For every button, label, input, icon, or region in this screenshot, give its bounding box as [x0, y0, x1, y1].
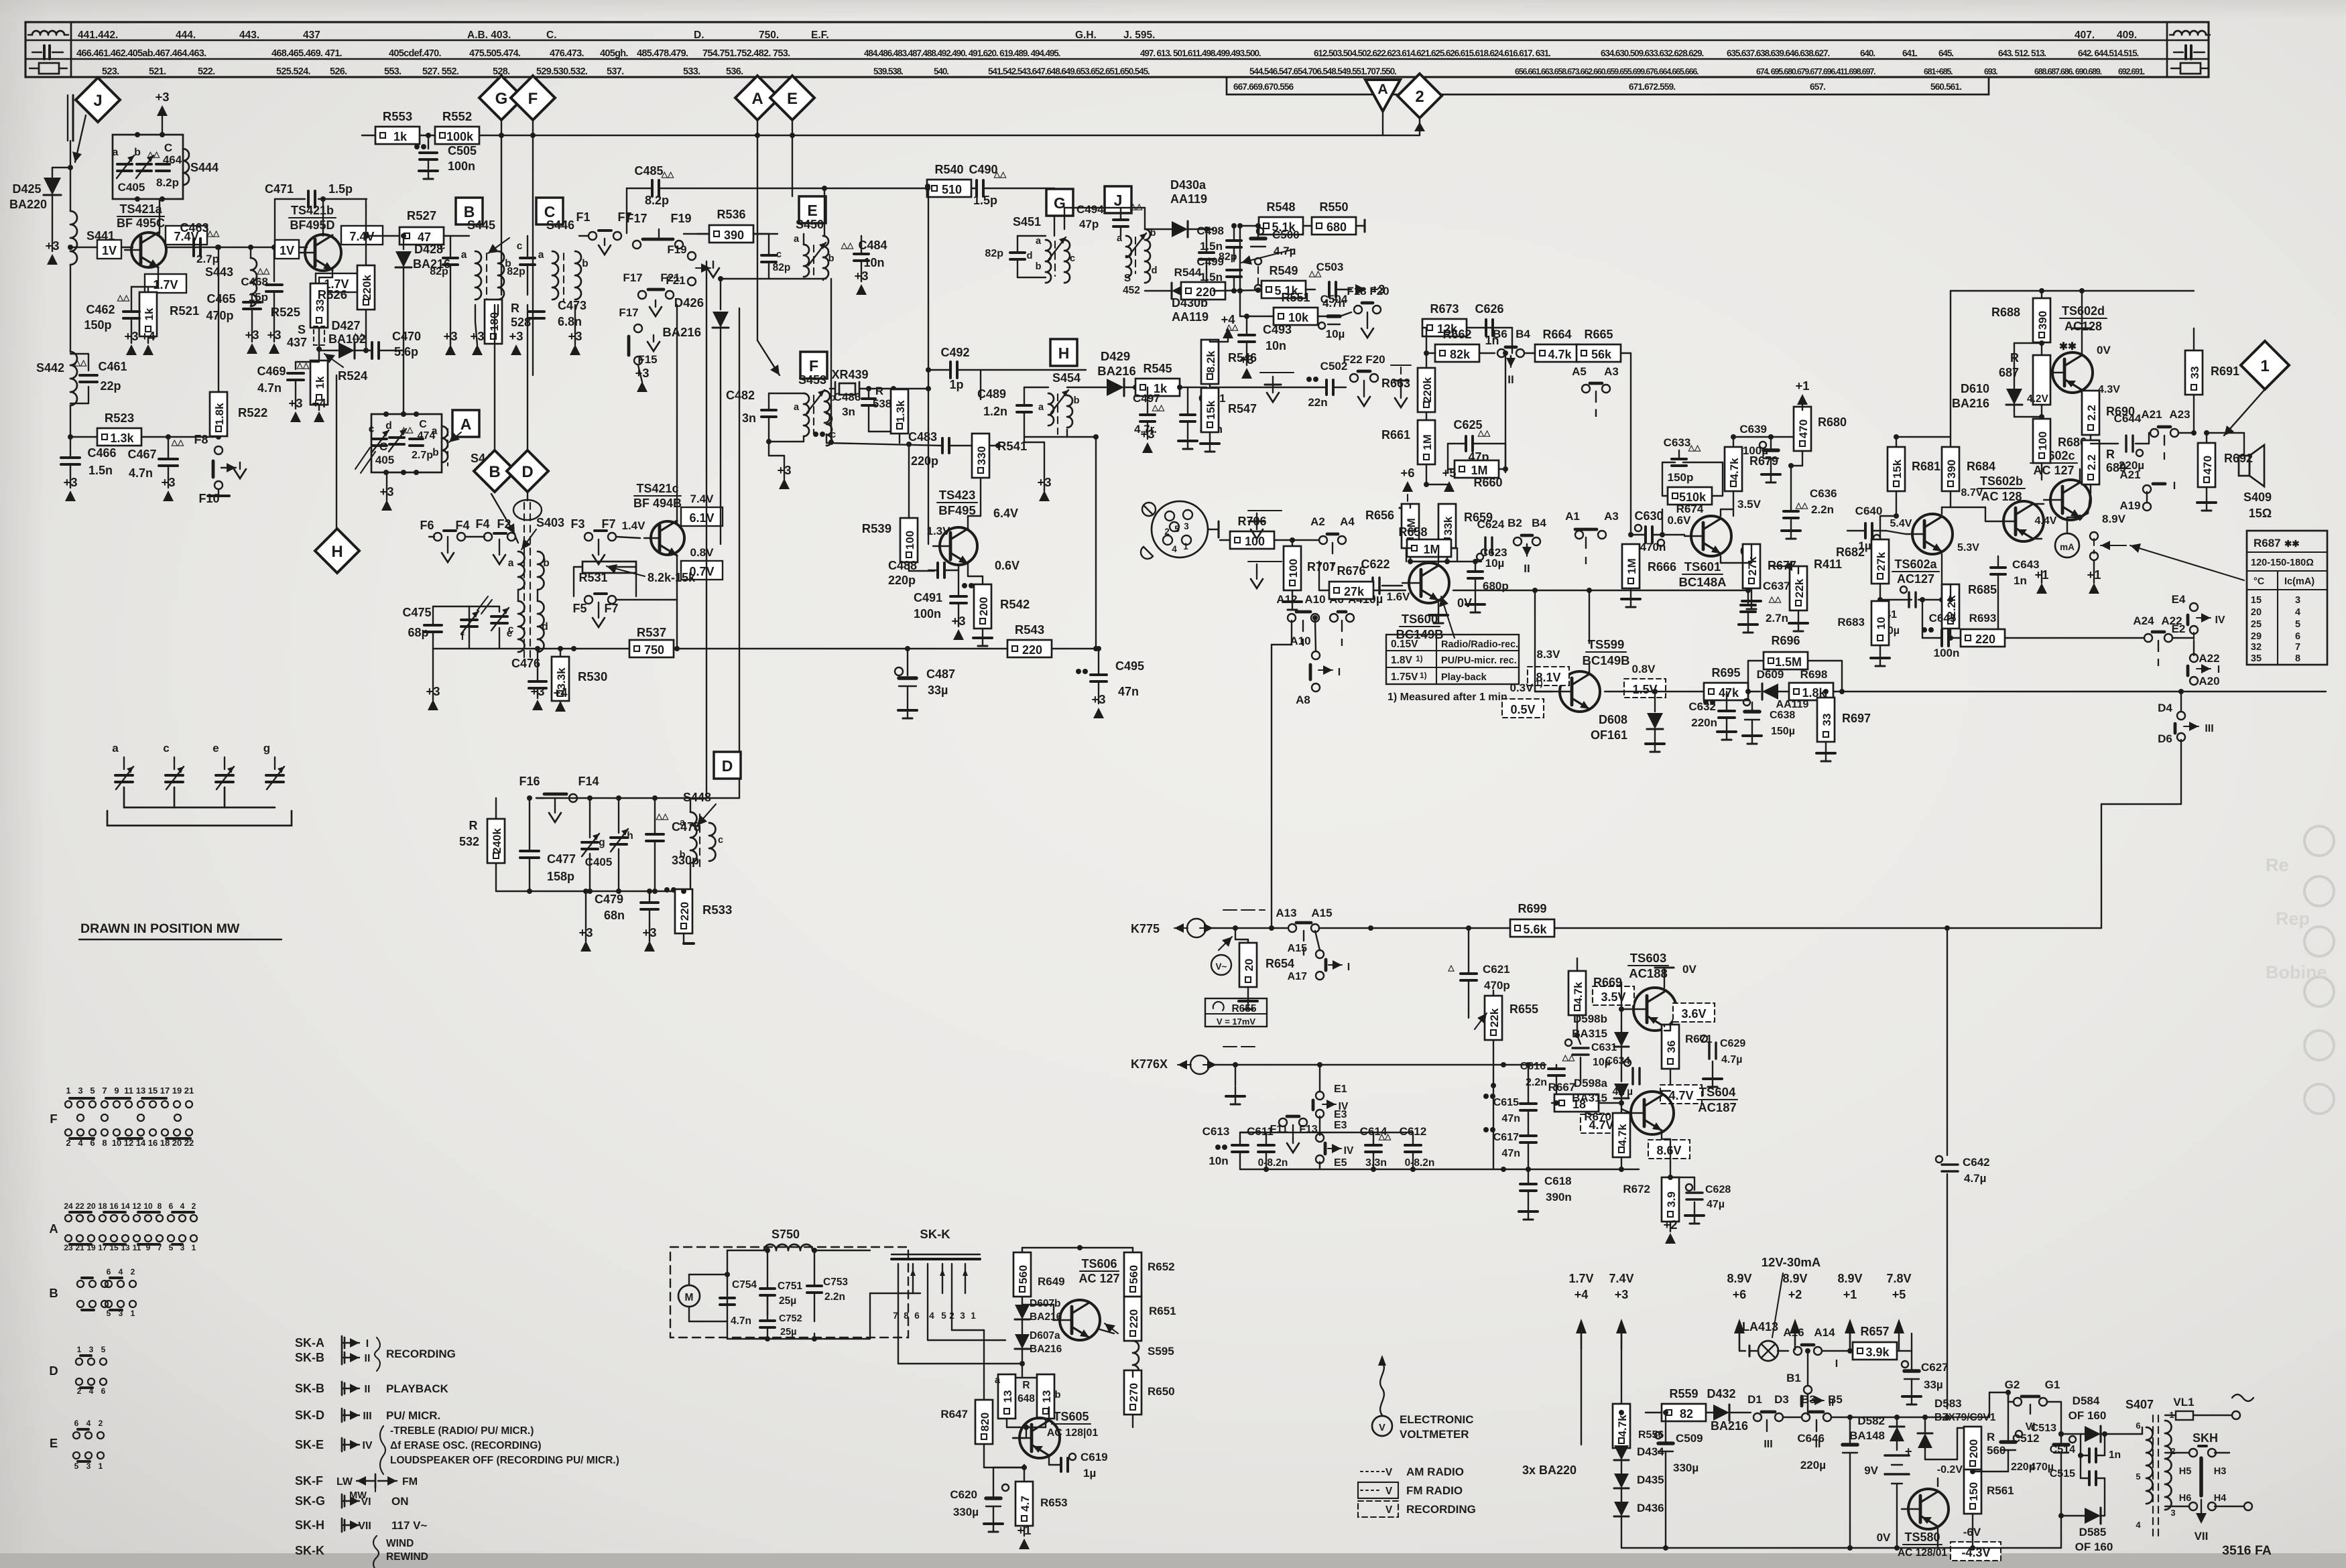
wire tuning to TS421a	[159, 199, 160, 234]
svg-text:220p: 220p	[911, 454, 938, 468]
svg-text:D432: D432	[1707, 1387, 1735, 1400]
svg-text:674. 695.680.679.677.696.411.6: 674. 695.680.679.677.696.411.698.697.	[1756, 67, 1875, 76]
wire S454 column	[1015, 442, 1017, 443]
svg-text:V: V	[1385, 1467, 1393, 1478]
capacitor C462 150p	[84, 287, 148, 343]
svg-text:SK-K: SK-K	[920, 1227, 950, 1241]
contacts F3 F7	[570, 517, 616, 564]
svg-text:+6: +6	[1400, 466, 1414, 480]
svg-text:4.4V: 4.4V	[2035, 515, 2057, 527]
capacitor C753 2.2n	[767, 1248, 848, 1321]
svg-text:BZX79/C9V1: BZX79/C9V1	[1934, 1412, 1996, 1423]
svg-text:J: J	[1114, 192, 1123, 209]
resistor R667 18	[1548, 1081, 1624, 1112]
svg-text:1k: 1k	[393, 130, 408, 143]
svg-text:8.9V: 8.9V	[2102, 513, 2126, 525]
svg-text:1M: 1M	[1625, 558, 1638, 574]
svg-text:a: a	[508, 558, 514, 569]
contacts A21 A23	[2141, 408, 2197, 462]
supply +3 osc right	[642, 925, 656, 952]
diode D609 AA119	[1757, 668, 1809, 710]
svg-text:C473: C473	[558, 299, 586, 312]
svg-text:a: a	[680, 818, 686, 828]
wire tone bottom bus	[1240, 1167, 1639, 1172]
wire +1 rail TS601	[1733, 434, 1805, 440]
svg-text:R547: R547	[1228, 402, 1257, 415]
voltage 7.4V 6.1V TS421c	[681, 493, 723, 526]
svg-text:4.7n: 4.7n	[731, 1315, 751, 1327]
svg-text:F8: F8	[194, 433, 208, 446]
faint ghost bleedthrough	[2266, 826, 2334, 1114]
svg-text:F5: F5	[572, 602, 586, 615]
wire rail right	[1947, 1390, 2011, 1417]
svg-text:1.5p: 1.5p	[973, 194, 997, 207]
osc wiring	[496, 798, 739, 894]
supply +1 below R653	[1017, 1523, 1031, 1549]
svg-text:2: 2	[99, 1419, 103, 1428]
diode D582 BA148 battery	[1849, 1415, 1912, 1548]
svg-text:BA148: BA148	[1849, 1429, 1885, 1442]
resistor R536 390 lead	[697, 233, 709, 235]
svg-text:SK-H: SK-H	[295, 1518, 324, 1532]
svg-text:+3: +3	[509, 329, 523, 343]
svg-text:C620: C620	[950, 1488, 977, 1501]
svg-text:0.6V: 0.6V	[1668, 514, 1692, 527]
svg-text:8.9V: 8.9V	[1782, 1272, 1807, 1285]
wire TS601 base	[1676, 534, 1684, 535]
wire TS599 collector	[1589, 643, 1590, 674]
svg-text:4: 4	[86, 1419, 91, 1428]
svg-text:3: 3	[960, 1311, 965, 1321]
IF can S454 and D429	[977, 371, 1081, 437]
wire A stem	[757, 120, 780, 375]
svg-text:+6: +6	[1733, 1288, 1747, 1301]
capacitor C471 1.5p	[265, 182, 367, 247]
meter box R655	[1205, 998, 1267, 1027]
capacitor C461 22p	[70, 354, 127, 403]
svg-text:14: 14	[121, 1201, 130, 1211]
svg-text:667.669.670.556: 667.669.670.556	[1233, 82, 1294, 92]
svg-text:8.3V: 8.3V	[1537, 648, 1561, 661]
svg-text:I: I	[2217, 664, 2220, 675]
wire vertical x1103 upper	[739, 308, 740, 320]
diamond H lower	[315, 375, 359, 573]
svg-text:R651: R651	[1149, 1305, 1176, 1317]
svg-text:Re: Re	[2266, 855, 2289, 875]
svg-text:A22: A22	[2199, 652, 2219, 665]
svg-text:SK-E: SK-E	[295, 1438, 324, 1451]
potentiometer R655 22k	[1469, 990, 1538, 1088]
diode D434	[1614, 1445, 1664, 1460]
svg-text:+2: +2	[1663, 1218, 1677, 1232]
box letter J IF	[1105, 186, 1131, 213]
label TS602a AC127	[1892, 558, 1939, 586]
transformer S407	[2125, 1398, 2176, 1538]
label TS580	[1898, 1530, 1947, 1559]
transistor TS606 AC127	[1053, 1300, 1100, 1340]
wire TS604 collector emitter	[1662, 1091, 1670, 1177]
svg-text:526.: 526.	[330, 66, 347, 77]
supply rail arrow +5	[1886, 1272, 1911, 1350]
label TS601 BC148A	[1679, 560, 1727, 589]
legend FM radio	[1358, 1482, 1463, 1498]
svg-text:C.: C.	[546, 29, 557, 41]
motor M	[678, 1275, 727, 1321]
svg-text:R533: R533	[702, 903, 732, 917]
wire TS599 emitter to R695	[1589, 692, 1704, 709]
svg-text:443.: 443.	[239, 29, 259, 41]
capacitor C493 10n	[1225, 316, 1292, 365]
supply +1 under R686	[2034, 568, 2048, 594]
motor box S750 dashed	[670, 1247, 908, 1337]
svg-text:0.8V: 0.8V	[690, 546, 715, 559]
svg-text:B: B	[49, 1286, 58, 1300]
svg-text:R654: R654	[1265, 957, 1294, 970]
svg-text:+2: +2	[1788, 1288, 1802, 1301]
svg-text:+4: +4	[553, 685, 568, 700]
resistor R538 1.3k vertical	[873, 385, 908, 443]
wire mid bus	[1503, 350, 1508, 472]
svg-text:560: 560	[1127, 1265, 1140, 1284]
svg-text:+1: +1	[1017, 1523, 1031, 1537]
supply +3 below C467	[161, 475, 175, 501]
wire TS606 top rail	[1022, 1245, 1133, 1250]
svg-text:LW: LW	[336, 1476, 353, 1488]
svg-text:C469: C469	[257, 365, 286, 378]
svg-text:240k: 240k	[491, 828, 503, 854]
svg-text:468.465.469. 471.: 468.465.469. 471.	[271, 48, 343, 59]
transistor TS600 BC149B	[1402, 563, 1449, 603]
svg-text:47µ: 47µ	[1707, 1199, 1725, 1210]
supply rail arrow +3	[1609, 1272, 1633, 1350]
svg-text:V: V	[1385, 1504, 1393, 1516]
wire R681 rail	[1802, 436, 1951, 438]
capacitor C491 100n	[914, 570, 974, 627]
voltage 5.3V TS602a	[1957, 542, 1979, 553]
svg-text:C468: C468	[241, 275, 268, 288]
svg-text:+4: +4	[312, 396, 326, 410]
svg-text:✱✱: ✱✱	[2284, 539, 2300, 549]
svg-text:VII: VII	[2195, 1530, 2209, 1543]
svg-text:F16: F16	[519, 775, 540, 788]
svg-text:C636: C636	[1810, 487, 1837, 500]
svg-text:750.: 750.	[759, 29, 779, 41]
resistor R650 270 vertical	[1124, 1370, 1175, 1427]
svg-text:220µ: 220µ	[1800, 1459, 1826, 1472]
capacitor C514 1n	[2050, 1431, 2121, 1462]
svg-text:437: 437	[303, 29, 320, 41]
transistor TS604 AC187	[1624, 1092, 1674, 1134]
svg-text:437: 437	[287, 336, 307, 349]
label TS421b BF495D	[289, 204, 336, 232]
svg-text:390: 390	[724, 228, 744, 242]
diamond A top	[735, 76, 780, 120]
voltage 1.3V TS423	[927, 525, 951, 537]
svg-text:R530: R530	[578, 669, 607, 683]
svg-text:687: 687	[1999, 366, 2019, 379]
svg-text:R: R	[1022, 1380, 1030, 1391]
svg-text:645.: 645.	[1938, 48, 1953, 58]
svg-text:SK-B: SK-B	[295, 1382, 324, 1395]
box letter B IF	[456, 198, 483, 224]
svg-text:510: 510	[942, 183, 962, 196]
svg-text:1: 1	[66, 1086, 70, 1096]
svg-text:R676: R676	[1337, 564, 1365, 578]
diamond D lower	[507, 450, 548, 492]
resistor R660 1M box	[1426, 353, 1505, 489]
svg-text:J. 595.: J. 595.	[1123, 29, 1155, 41]
svg-text:470: 470	[1797, 419, 1810, 438]
svg-text:4: 4	[180, 1201, 185, 1211]
svg-text:IV: IV	[362, 1440, 372, 1451]
wire TS602b to c	[2033, 504, 2044, 539]
svg-text:444.: 444.	[176, 29, 196, 41]
capacitor C615 47n	[1483, 1062, 1536, 1135]
label TS600 BC149B	[1396, 612, 1444, 641]
svg-text:100n: 100n	[448, 159, 475, 173]
svg-text:F: F	[528, 90, 538, 108]
svg-text:C752: C752	[779, 1313, 802, 1324]
svg-text:TS602d: TS602d	[2062, 304, 2105, 318]
svg-text:C475: C475	[402, 606, 431, 619]
svg-text:A16: A16	[1783, 1326, 1804, 1339]
svg-text:b: b	[582, 258, 588, 269]
svg-text:C487: C487	[926, 667, 955, 681]
svg-text:A12: A12	[1276, 593, 1297, 606]
wire R411 to emitter	[1770, 566, 1798, 567]
wire S450b down	[830, 279, 832, 442]
contacts F5 F7 low	[572, 594, 618, 627]
svg-text:g: g	[263, 742, 270, 755]
svg-text:100: 100	[1287, 559, 1300, 578]
resistor R539 100 vertical	[862, 518, 934, 571]
capacitor C624 10u	[1477, 518, 1505, 570]
resistor R548 5.1k	[1237, 200, 1312, 235]
table row 3 resistor numbers	[102, 66, 2145, 77]
svg-text:F22: F22	[1343, 353, 1362, 366]
svg-text:Ic(mA): Ic(mA)	[2284, 576, 2314, 587]
svg-text:R541: R541	[997, 439, 1027, 453]
resistor R693 220	[1961, 612, 2051, 647]
contacts F22 F20	[1343, 353, 1385, 406]
capacitor C468 15p	[241, 247, 282, 342]
svg-text:82p: 82p	[430, 266, 448, 277]
svg-text:E1: E1	[1334, 1084, 1347, 1095]
wire tone top bus	[1240, 1065, 1413, 1132]
svg-text:R687: R687	[2254, 537, 2281, 549]
svg-text:AC128: AC128	[2064, 320, 2102, 333]
svg-text:648: 648	[1017, 1393, 1035, 1404]
svg-text:C486: C486	[834, 391, 861, 403]
svg-text:BA216: BA216	[662, 325, 701, 339]
wire C642 column	[1936, 925, 1990, 1409]
svg-text:C: C	[379, 440, 387, 453]
svg-text:E: E	[50, 1436, 58, 1450]
transistor TS421a BF495C	[125, 233, 166, 267]
resistor R679 4.7k vertical	[1725, 434, 1778, 509]
svg-text:A10: A10	[1290, 635, 1310, 647]
supply rail arrow +2	[1782, 1272, 1807, 1350]
svg-text:220k: 220k	[361, 275, 373, 300]
switch diagram E	[50, 1419, 104, 1471]
wire +1 rail top	[1951, 288, 2194, 293]
svg-text:1k: 1k	[143, 308, 156, 320]
svg-text:F20: F20	[1369, 285, 1389, 298]
svg-text:h: h	[627, 830, 633, 842]
svg-text:A.B. 403.: A.B. 403.	[467, 29, 511, 41]
resistor R533 220 vertical	[675, 889, 732, 943]
wire TS602c collector	[2080, 469, 2091, 482]
meter V~ R654	[1211, 925, 1294, 1009]
svg-text:+3: +3	[1615, 1288, 1629, 1301]
svg-text:220: 220	[1127, 1309, 1140, 1328]
trimmer row a c e g	[107, 742, 292, 826]
svg-text:D598a: D598a	[1574, 1077, 1608, 1090]
svg-text:VII: VII	[358, 1520, 371, 1532]
svg-text:c: c	[830, 430, 836, 440]
motor box bottom wire	[689, 1293, 920, 1342]
svg-text:4: 4	[929, 1311, 934, 1321]
svg-text:B5: B5	[1828, 1393, 1843, 1406]
svg-text:ELECTRONIC: ELECTRONIC	[1400, 1413, 1474, 1426]
svg-text:22k: 22k	[1793, 578, 1806, 598]
svg-text:B2: B2	[1507, 517, 1522, 529]
svg-text:1.3k: 1.3k	[894, 400, 907, 423]
resistor R653 4.7 vertical	[1015, 1482, 1068, 1536]
diamond 2 top	[1398, 74, 1442, 135]
svg-text:AA119: AA119	[1170, 192, 1207, 206]
svg-text:R552: R552	[442, 109, 472, 123]
svg-text:25µ: 25µ	[780, 1327, 796, 1337]
component index table frame	[25, 22, 2209, 94]
svg-text:4.7n: 4.7n	[257, 381, 282, 395]
contacts F6 F4	[420, 519, 469, 562]
svg-text:OF161: OF161	[1591, 728, 1627, 742]
wire TS600 base R658	[1402, 562, 1447, 586]
resistor R542 200 vertical	[968, 565, 1030, 646]
svg-text:11: 11	[124, 1086, 133, 1096]
svg-text:BA216: BA216	[1952, 397, 1989, 410]
svg-text:1: 1	[192, 1243, 196, 1252]
svg-text:G2: G2	[2005, 1378, 2020, 1391]
svg-text:330µ: 330µ	[953, 1506, 979, 1518]
svg-text:R670: R670	[1584, 1110, 1611, 1123]
svg-text:C646: C646	[1797, 1432, 1825, 1445]
svg-text:0-8.2n: 0-8.2n	[1258, 1157, 1288, 1169]
svg-text:D435: D435	[1637, 1474, 1664, 1486]
svg-text:R655: R655	[1509, 1002, 1538, 1016]
svg-text:R681: R681	[1912, 460, 1940, 473]
svg-text:C632: C632	[1688, 700, 1716, 713]
svg-text:K775: K775	[1131, 922, 1160, 935]
svg-text:6: 6	[101, 1386, 106, 1396]
svg-text:H: H	[331, 543, 343, 561]
svg-text:C613: C613	[1202, 1125, 1230, 1138]
svg-text:2.7n: 2.7n	[1766, 612, 1788, 625]
svg-text:C638: C638	[1770, 710, 1795, 721]
resistor R671 36 vertical	[1662, 1025, 1713, 1091]
svg-text:C492: C492	[940, 346, 969, 359]
svg-text:V: V	[1385, 1486, 1393, 1497]
svg-text:S442: S442	[36, 361, 64, 375]
svg-text:33µ: 33µ	[928, 683, 948, 697]
svg-text:220: 220	[1975, 633, 1995, 646]
table row 3 second line numbers	[1233, 82, 1961, 92]
speaker S409	[2207, 433, 2272, 520]
svg-text:VI: VI	[361, 1496, 371, 1508]
svg-text:8.2p: 8.2p	[156, 176, 179, 189]
svg-text:475.505.474.: 475.505.474.	[469, 48, 521, 59]
svg-text:200: 200	[1967, 1439, 1980, 1458]
svg-text:R549: R549	[1269, 264, 1298, 277]
svg-text:C619: C619	[1081, 1451, 1108, 1463]
contact A21 single	[2119, 468, 2176, 512]
svg-text:8.9V: 8.9V	[1727, 1272, 1751, 1285]
wire S454 bottom	[1048, 430, 1099, 651]
switch contact F8 F10	[194, 433, 246, 505]
svg-text:F1: F1	[576, 210, 590, 224]
svg-text:PU/ MICR.: PU/ MICR.	[386, 1409, 440, 1422]
svg-text:BA216: BA216	[1030, 1344, 1062, 1355]
transistor TS602a AC127	[1906, 514, 1953, 554]
wire TS599 base	[1535, 643, 1553, 692]
svg-text:D429: D429	[1101, 349, 1130, 363]
svg-text:8.6V: 8.6V	[1656, 1144, 1681, 1157]
svg-text:8: 8	[158, 1201, 162, 1211]
contacts B1 B3 vertical	[1786, 1348, 1834, 1415]
meter mA	[2055, 515, 2126, 560]
capacitor C487 33u	[831, 646, 955, 718]
svg-text:b: b	[1055, 1390, 1061, 1400]
voltage 0V TS580	[1877, 1531, 1891, 1544]
svg-text:D3: D3	[1774, 1393, 1789, 1406]
capacitor C463 2.7p	[180, 221, 221, 265]
svg-text:+5: +5	[1442, 466, 1456, 480]
svg-text:10n: 10n	[1265, 339, 1286, 352]
svg-text:AA119: AA119	[1172, 310, 1209, 324]
svg-text:560.561.: 560.561.	[1930, 82, 1961, 92]
svg-text:AC 128|01: AC 128|01	[1047, 1427, 1099, 1439]
wire TS605 base	[1013, 1425, 1029, 1438]
svg-text:553.: 553.	[384, 66, 402, 77]
svg-text:A21: A21	[2141, 408, 2162, 421]
contacts F19 F21 col	[666, 243, 719, 287]
svg-text:a: a	[461, 249, 467, 261]
svg-text:7.8V: 7.8V	[1886, 1272, 1911, 1285]
contacts A24 A22	[2051, 614, 2194, 669]
resistor R411 22k vertical	[1783, 558, 1842, 631]
svg-text:+3: +3	[124, 329, 138, 343]
resistor R695 47k	[1704, 666, 1760, 700]
svg-text:R695: R695	[1711, 666, 1740, 679]
svg-text:+4: +4	[1221, 312, 1235, 326]
arrow table to TS600	[1439, 596, 1455, 638]
wire SKK to TS606	[898, 1308, 1022, 1400]
svg-text:390n: 390n	[1546, 1191, 1572, 1203]
svg-text:IV: IV	[1344, 1145, 1354, 1157]
voltage 0.8V 0.7V TS421c	[681, 546, 723, 580]
svg-text:C630: C630	[1634, 509, 1663, 523]
svg-text:100n: 100n	[1934, 647, 1960, 659]
svg-text:+3: +3	[530, 684, 544, 698]
svg-text:R652: R652	[1148, 1260, 1175, 1273]
wire long vertical x1103	[739, 308, 740, 798]
svg-text:A5: A5	[1572, 365, 1587, 378]
contacts B2 B4	[1507, 517, 1546, 575]
svg-text:E4: E4	[2172, 593, 2186, 606]
diode D608 OF161	[1591, 689, 1664, 752]
contacts A1 A3	[1565, 510, 1633, 567]
